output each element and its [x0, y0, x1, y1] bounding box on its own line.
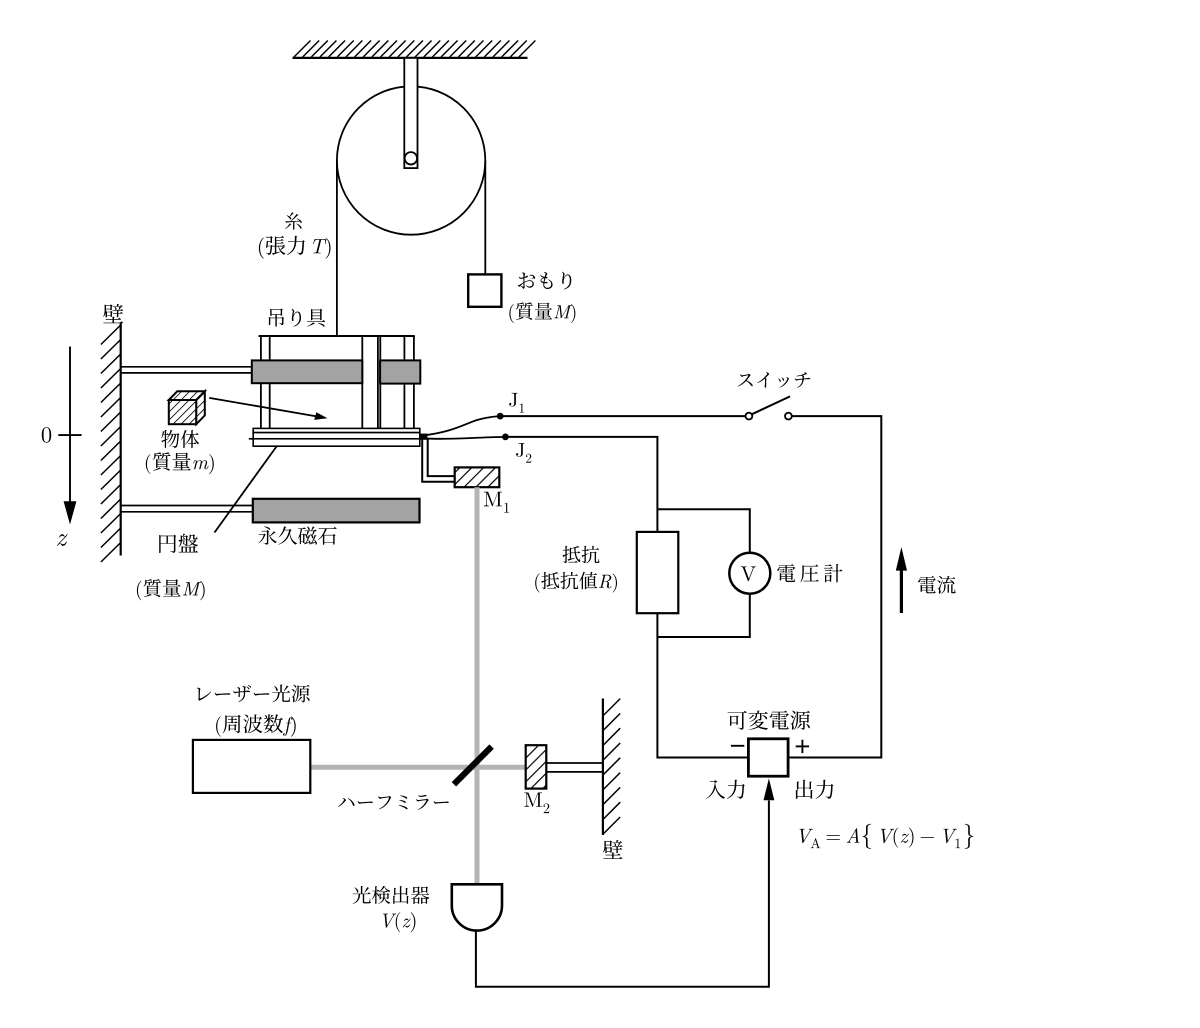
wire lug to J2 — [424, 437, 505, 439]
label weight mass M — [509, 302, 575, 323]
label object mass m — [146, 452, 214, 474]
label resistance R — [535, 572, 617, 593]
amplifier input arrowhead — [764, 778, 775, 800]
mirror M2 — [526, 745, 547, 788]
label z — [57, 534, 67, 546]
lower permanent magnet — [253, 499, 420, 523]
switch lever — [752, 396, 790, 414]
mirror M2 rod — [546, 763, 602, 772]
label switch — [738, 372, 811, 388]
label buttai (object) — [161, 430, 199, 448]
switch contact right — [785, 413, 792, 420]
switch contact left — [746, 413, 753, 420]
label output — [796, 780, 834, 799]
label wall right — [603, 840, 623, 859]
label input — [706, 780, 745, 799]
label frequency f — [216, 714, 296, 736]
wire detector to amplifier — [476, 801, 769, 987]
wire voltmeter bottom branch — [657, 594, 749, 637]
hanger frame posts — [261, 336, 414, 429]
laser beam horizontal — [310, 765, 526, 770]
label Vz — [383, 912, 415, 932]
wire lug — [420, 434, 428, 440]
lower support rod — [122, 506, 254, 512]
label laser source — [197, 685, 310, 703]
plate tick — [249, 438, 253, 440]
label tension T — [259, 236, 331, 259]
label tsurigu (hanger) — [269, 309, 325, 327]
resistor R — [637, 532, 679, 613]
disk upper plate — [253, 433, 420, 439]
string left (to hanger) — [336, 161, 338, 336]
current arrow — [896, 547, 907, 613]
voltmeter circle — [729, 553, 770, 594]
wire switch to right rail — [788, 416, 881, 757]
mirror M1 — [455, 467, 500, 487]
variable power supply box — [748, 739, 788, 776]
label voltmeter — [777, 564, 842, 582]
wire J1 to switch — [500, 415, 746, 417]
label half mirror — [338, 795, 449, 810]
photodetector — [452, 884, 502, 930]
right wall hatch — [603, 699, 620, 834]
ceiling — [293, 41, 536, 58]
disk (mass M) — [253, 439, 420, 446]
label current — [918, 576, 956, 594]
left wall hatch — [101, 325, 121, 562]
formula VA — [800, 824, 974, 849]
hanger frame top bar — [259, 335, 415, 337]
wire lug to J1 — [424, 416, 500, 435]
label wall left — [103, 304, 123, 323]
label ito (string) — [285, 212, 302, 230]
node J2 dot — [502, 434, 509, 441]
label enban (disk) — [159, 534, 198, 553]
z-axis zero tick — [58, 434, 81, 436]
pulley axle — [405, 152, 417, 164]
node J1 dot — [497, 413, 504, 420]
half mirror — [454, 747, 492, 785]
object arrow — [209, 398, 327, 420]
label V meter — [741, 566, 756, 581]
wire voltmeter top branch — [657, 509, 749, 552]
string right (to weight) — [484, 161, 486, 275]
right wall line — [602, 699, 604, 836]
label disk mass M — [137, 579, 205, 600]
label resistor — [563, 546, 600, 563]
laser source box — [193, 740, 310, 793]
laser beam vertical — [475, 487, 480, 884]
upper permanent magnet left — [252, 360, 362, 383]
disk leader line — [215, 447, 277, 533]
hanger bottom plate — [253, 428, 420, 432]
label permanent magnet — [258, 526, 337, 544]
z-axis arrowhead — [64, 501, 77, 524]
plus sign — [796, 740, 809, 753]
label M2 — [524, 793, 549, 814]
pulley wheel — [337, 86, 485, 234]
upper permanent magnet right — [380, 360, 420, 383]
z-axis line — [69, 347, 71, 503]
label photodetector — [353, 886, 430, 904]
label omori (weight) — [518, 272, 571, 290]
minus sign — [731, 745, 744, 747]
weight (mass M) — [468, 274, 501, 306]
left wall line — [120, 323, 122, 556]
label J1 — [509, 393, 524, 413]
wire J2 to resistor to source — [505, 437, 748, 758]
label variable source — [728, 711, 810, 730]
object cube (mass m) — [169, 391, 205, 424]
label M1 — [484, 492, 509, 513]
pulley support bar — [404, 58, 417, 168]
label J2 — [516, 443, 531, 463]
mirror M1 bracket — [422, 440, 455, 482]
label zero — [42, 427, 51, 442]
upper support rod — [122, 367, 253, 373]
